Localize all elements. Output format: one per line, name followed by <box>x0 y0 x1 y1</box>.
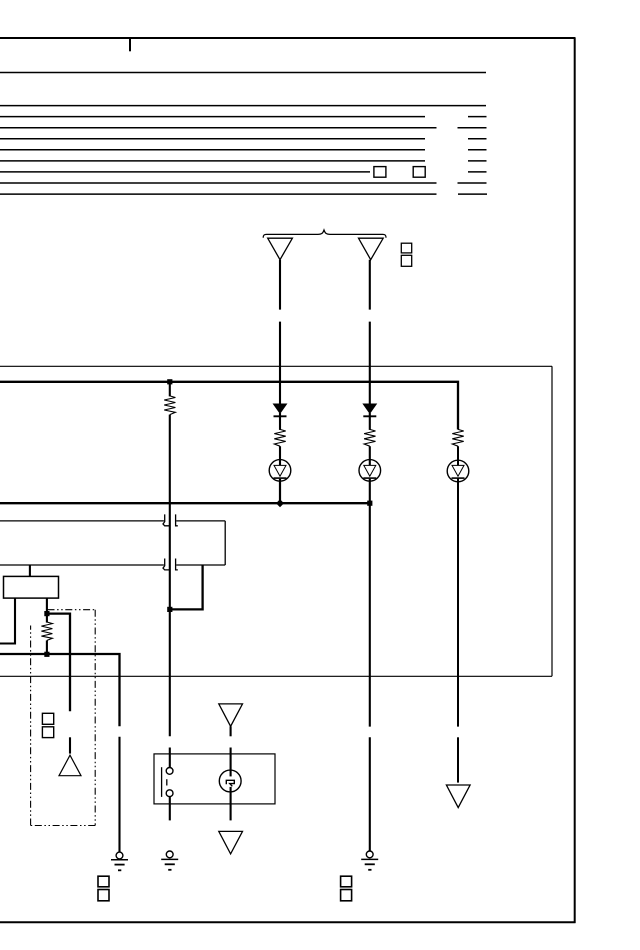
wire from box right leg <box>46 598 48 623</box>
sender loop top <box>176 520 225 522</box>
arrow connector B3 <box>446 785 470 808</box>
diode D2 <box>363 404 376 413</box>
junction dot on ground bus 2 <box>44 652 49 657</box>
label square pair bottom-left 1 <box>98 876 109 887</box>
LED L1 <box>269 460 291 482</box>
ground bus 2 <box>0 654 120 726</box>
resistor R3 <box>452 429 463 446</box>
connector male lower <box>176 559 178 570</box>
wire row 2 <box>0 105 486 107</box>
switch branch dash <box>169 748 171 768</box>
connector female lower <box>163 559 170 570</box>
wire D2 to R2 <box>369 413 371 430</box>
wire R3 to LED3 <box>457 446 459 465</box>
connector box B on row 8 <box>413 167 425 178</box>
resistor R2 <box>364 429 375 446</box>
wire LED1 to bus <box>279 479 281 503</box>
wire row 9 <box>0 182 437 184</box>
wire from triangle A down <box>279 260 281 405</box>
motor M1 <box>219 770 241 792</box>
wire bus to R4 <box>169 382 171 397</box>
resistor R1 <box>274 429 285 446</box>
junction dot loop <box>167 607 172 612</box>
wire below motor <box>230 787 232 821</box>
ground G1 <box>116 852 123 859</box>
lower arrow connector <box>219 831 243 854</box>
connector box A on row 8 <box>374 167 386 178</box>
branch wire right of dot <box>47 614 70 712</box>
up triangle connector <box>59 755 81 776</box>
dash-dot boundary box right edge <box>94 610 96 826</box>
junction diamond L1 <box>276 499 284 507</box>
wire LED2 down <box>369 479 371 727</box>
ground bus 2 dash <box>118 737 120 852</box>
wire row 7 <box>0 160 425 162</box>
gauge unit box top edge <box>0 365 552 367</box>
branch wire dash <box>69 737 71 753</box>
page top border <box>0 37 576 39</box>
wire row 7 stub <box>468 160 487 162</box>
dash-dot boundary box left edge <box>30 626 32 826</box>
label square pair bottom-mid 1 <box>341 876 352 887</box>
label square pair top-right 1 <box>401 243 411 253</box>
page connector triangle A <box>268 238 293 260</box>
sender loop bottom <box>176 564 225 566</box>
brace over page connectors <box>263 230 386 238</box>
wire below switch <box>169 797 171 821</box>
diode D1 <box>274 404 287 413</box>
LED L3 <box>447 460 469 482</box>
junction dot R4 <box>167 379 172 384</box>
dash-dot boundary box top edge <box>48 609 96 611</box>
ground G2 <box>166 851 173 858</box>
ground G3 <box>366 851 373 858</box>
page connector triangle B <box>359 238 384 260</box>
wire row 9 stub <box>458 182 487 184</box>
wire row 10 <box>0 193 437 195</box>
resistor R5 <box>41 622 52 640</box>
dimmer component box <box>4 576 59 598</box>
wire D1 to R1 <box>279 413 281 430</box>
branch B2 dash <box>369 737 371 851</box>
resistor R4 <box>164 396 175 415</box>
wire row 4 <box>0 127 437 129</box>
junction dot L2 <box>367 501 372 506</box>
motor branch wire 2 <box>230 748 232 777</box>
wire row 3 stub <box>468 116 487 118</box>
page bottom border <box>0 921 576 923</box>
stub to dimmer box <box>29 565 31 576</box>
dash-dot boundary box bottom edge <box>31 825 96 827</box>
switch lever <box>161 767 163 797</box>
sender wire upper <box>0 520 164 522</box>
sender wire lower <box>0 564 164 566</box>
label square pair top-right 2 <box>401 255 411 266</box>
label square pair bottom-mid 2 <box>341 890 352 901</box>
wire below R5 <box>46 640 48 654</box>
wire R2 to LED2 <box>369 446 371 465</box>
label square in box 2 <box>42 727 53 738</box>
wire row 3 <box>0 116 425 118</box>
combination box <box>154 754 275 804</box>
gauge unit box bottom edge <box>0 675 552 677</box>
wire row 6 stub <box>468 149 487 151</box>
sender loop drop <box>170 565 203 609</box>
motor branch wire <box>230 726 232 736</box>
wire R1 to LED1 <box>279 446 281 465</box>
page right border <box>574 38 576 923</box>
wire from triangle B down <box>369 260 371 405</box>
junction dot B7 <box>44 611 49 616</box>
wire below R4 <box>169 415 171 737</box>
label square pair bottom-left 2 <box>98 890 109 901</box>
wire row 5 stub <box>468 138 487 140</box>
connector female upper <box>163 514 170 525</box>
gauge unit box right edge <box>551 366 553 676</box>
branch B3 dash <box>457 737 459 782</box>
ground bus wire <box>0 502 280 504</box>
motor branch arrow down <box>219 704 243 726</box>
power bus wire <box>0 382 458 430</box>
switch terminal top <box>166 768 173 775</box>
switch nub <box>166 779 168 785</box>
wire LED3 down <box>457 478 459 726</box>
sender loop right <box>224 521 226 565</box>
wire row 1 <box>0 72 486 74</box>
label square in box 1 <box>42 713 53 724</box>
wire row 8 stub <box>468 171 487 173</box>
wire row 10 stub <box>458 193 487 195</box>
LED L2 <box>359 460 381 482</box>
tick on top border <box>129 38 131 51</box>
switch terminal bottom <box>166 790 173 797</box>
wire row 8 <box>0 171 370 173</box>
connector male upper <box>176 514 178 525</box>
wire row 5 <box>0 138 425 140</box>
wire row 6 <box>0 149 425 151</box>
wire from box left leg <box>0 598 15 643</box>
wire row 4 stub <box>458 127 487 129</box>
